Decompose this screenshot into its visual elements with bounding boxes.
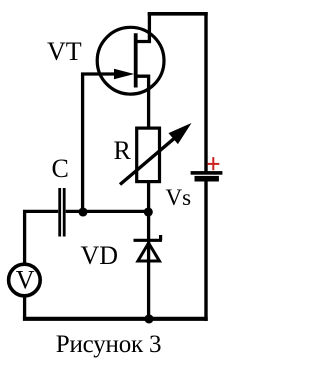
diode VD zener hook bbox=[159, 235, 162, 240]
wire base B1 lead bbox=[136, 76, 149, 128]
source Vs negative plate bbox=[195, 176, 219, 182]
wire voltmeter to bottom bbox=[23, 296, 26, 319]
transistor VT circle bbox=[97, 27, 164, 94]
wire emitter lead bbox=[83, 74, 117, 212]
svg-text:VD: VD bbox=[81, 241, 119, 270]
source Vs plus sign bbox=[207, 157, 219, 170]
wire resistor to diode to bottom bbox=[147, 181, 150, 319]
svg-text:Рисунок 3: Рисунок 3 bbox=[56, 331, 162, 358]
transistor VT emitter arrow bbox=[114, 69, 134, 80]
diode VD triangle bbox=[138, 243, 160, 261]
transistor VT base bar bbox=[134, 33, 138, 87]
node C junction dot bbox=[144, 314, 153, 323]
wire right side lower bbox=[204, 181, 207, 321]
svg-text:Vs: Vs bbox=[166, 185, 192, 210]
wire capacitor to node B bbox=[66, 210, 149, 213]
wire right side upper bbox=[204, 12, 207, 172]
diode VD cathode bar bbox=[134, 239, 163, 242]
source Vs positive plate bbox=[191, 171, 223, 175]
capacitor C left plate bbox=[58, 188, 61, 237]
node A junction dot bbox=[78, 207, 87, 216]
resistor R variable arrow head bbox=[169, 123, 192, 144]
wire bottom bbox=[23, 317, 208, 321]
svg-text:C: C bbox=[52, 154, 69, 183]
svg-text:VT: VT bbox=[47, 37, 82, 66]
resistor R body bbox=[137, 128, 160, 182]
resistor R variable arrow shaft bbox=[120, 135, 178, 184]
capacitor C right plate bbox=[63, 188, 66, 237]
wire base B2 lead bbox=[136, 13, 149, 42]
svg-text:R: R bbox=[114, 136, 132, 165]
wire top bbox=[148, 12, 208, 16]
wire voltmeter to capacitor bbox=[25, 211, 59, 263]
voltmeter PV circle bbox=[9, 264, 41, 296]
node B junction dot bbox=[144, 207, 153, 216]
svg-text:V: V bbox=[16, 266, 35, 295]
